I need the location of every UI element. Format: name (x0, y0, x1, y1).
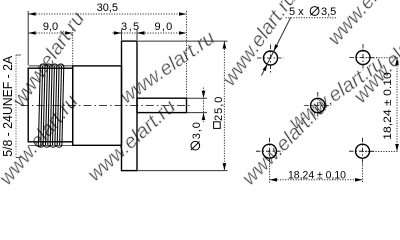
hole top-left (257, 45, 284, 74)
threaded barrel outline (28, 68, 72, 142)
crest arcs bottom (38, 145, 44, 147)
dim 3,5 flange thickness (113, 30, 138, 41)
svg-text:18,24 ± 0.10: 18,24 ± 0.10 (382, 72, 394, 140)
dim 9,0 right (137, 32, 187, 34)
svg-text:30,5: 30,5 (97, 2, 118, 14)
svg-text:3,5: 3,5 (321, 6, 336, 18)
svg-text:9,0: 9,0 (43, 21, 58, 33)
svg-text:5/8 - 24UNEF - 2A: 5/8 - 24UNEF - 2A (1, 55, 15, 157)
watermark www.elart.ru tiled (0, 0, 400, 190)
hole top-right (350, 44, 378, 71)
svg-text:18,24 ± 0,10: 18,24 ± 0,10 (288, 169, 346, 181)
dim 18,24 right (363, 58, 399, 152)
crest arcs top (40, 64, 46, 66)
leader line (262, 17, 337, 75)
hole bottom-right (349, 138, 376, 165)
rear stub (137, 98, 187, 112)
dim 9,0 left (28, 30, 72, 65)
svg-text:5 x: 5 x (289, 6, 304, 18)
centerline (21, 104, 191, 106)
dim 30,5 (28, 11, 186, 98)
svg-text:3,0: 3,0 (191, 121, 203, 139)
mid body cylinder (73, 66, 122, 145)
hole center (304, 92, 331, 119)
svg-text:9,0: 9,0 (155, 21, 174, 33)
thread coil lines (38, 64, 64, 147)
svg-text:25,0: 25,0 (213, 96, 225, 121)
thread crest thin lines (29, 66, 73, 145)
dim square 25,0 flange (138, 41, 228, 171)
flange plate side (122, 41, 138, 171)
dim 18,24 bottom (270, 158, 363, 184)
thread spec bracket (16, 55, 21, 158)
hole bottom-left (256, 138, 283, 165)
diameter symbol (191, 141, 200, 150)
svg-text:3,5: 3,5 (121, 21, 141, 33)
dim diameter 3,0 of stub (187, 88, 208, 123)
